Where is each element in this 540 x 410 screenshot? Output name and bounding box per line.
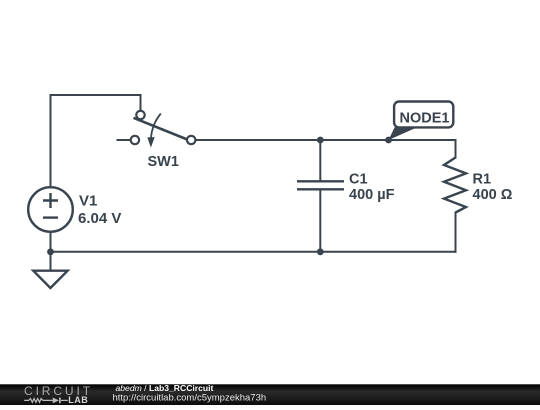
svg-text:400 µF: 400 µF	[349, 187, 395, 203]
svg-text:abedm / Lab3_RCCircuit: abedm / Lab3_RCCircuit	[116, 383, 214, 393]
svg-text:http://circuitlab.com/c5ympzek: http://circuitlab.com/c5ympzekha73h	[113, 393, 267, 404]
svg-text:NODE1: NODE1	[400, 110, 450, 126]
svg-text:C1: C1	[349, 171, 368, 187]
svg-text:R1: R1	[473, 171, 492, 187]
svg-text:400 Ω: 400 Ω	[473, 187, 513, 203]
svg-text:SW1: SW1	[148, 154, 179, 170]
svg-text:LAB: LAB	[68, 395, 88, 405]
svg-text:V1: V1	[79, 193, 97, 210]
svg-text:6.04 V: 6.04 V	[78, 210, 121, 227]
